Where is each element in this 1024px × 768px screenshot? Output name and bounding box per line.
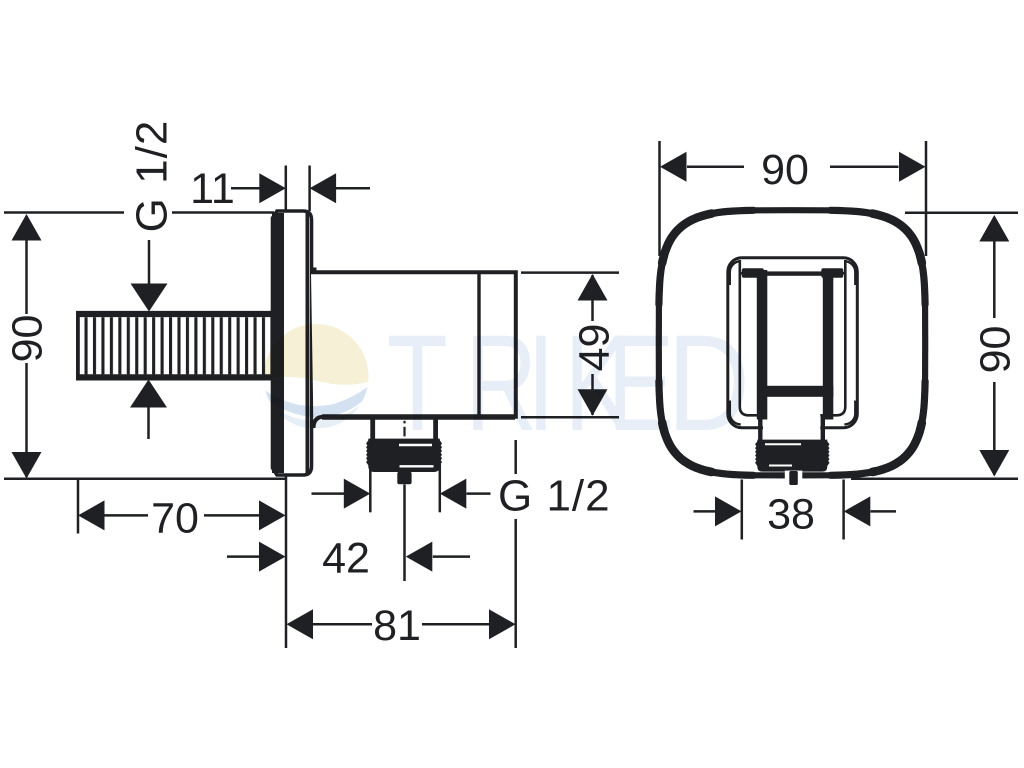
threaded pipe hatch [83, 317, 273, 374]
outlet thread block front [755, 440, 829, 472]
leader line pipe bottom [147, 405, 150, 439]
dim 90-top extension lines (front view) [660, 141, 927, 256]
dim 81 dimension line [313, 623, 489, 626]
arrow 90-left up [12, 214, 42, 241]
body inner vertical line [477, 272, 480, 417]
holder crossbar [757, 386, 833, 397]
dim 90-left dimension line [25, 216, 28, 477]
holder outer outline [728, 258, 858, 428]
dim G1/2 outlet extension lines [370, 464, 440, 512]
holder right tab [821, 268, 843, 277]
svg-text:90: 90 [971, 326, 1019, 374]
arrow 70 left [78, 500, 105, 530]
dim 90-top dimension line [687, 166, 899, 169]
centerline outlet [403, 410, 405, 437]
svg-text:11: 11 [190, 165, 235, 213]
holder bottom gap knockout [763, 404, 820, 431]
outlet thread highlights front [765, 444, 801, 465]
arrow 90-right down [979, 450, 1009, 477]
body bottom edge thickening [322, 414, 515, 420]
dim 90-right dimension line [993, 217, 996, 475]
stem knockout [785, 471, 803, 480]
outlet thread block [366, 439, 442, 472]
arrow 70 right [259, 500, 286, 530]
arrow 42 left [259, 542, 286, 572]
squircle corner thickening [831, 381, 926, 475]
dim G1/2 outlet leader lines [312, 492, 491, 495]
arrow 49 up [578, 274, 608, 301]
svg-text:90: 90 [4, 315, 52, 363]
arrow 90-left down [12, 452, 42, 479]
arrow 42 right [406, 542, 433, 572]
dim 70 dimension line [104, 514, 259, 517]
holder left tab [742, 268, 764, 277]
dim 90-left bottom extension line [4, 478, 287, 481]
extension line plate face [285, 477, 288, 649]
dim 49 extension lines [521, 273, 619, 418]
threaded pipe outline [78, 314, 275, 378]
dim 42 center extension line [403, 485, 406, 582]
dim 11 dimension line [231, 187, 370, 190]
arrow 38 right [844, 496, 871, 526]
escutcheon squircle [659, 210, 925, 475]
outlet neck lines front [760, 414, 823, 441]
dim 70 extension line left [77, 480, 80, 534]
svg-text:81: 81 [373, 602, 421, 650]
arrow 38 left [715, 496, 742, 526]
dim 81 extension line right [514, 440, 517, 648]
dim 90-right bottom extension line [851, 478, 1018, 481]
svg-text:D: D [667, 305, 750, 459]
arrow 81 right [489, 609, 516, 639]
dim 90-left top extension line [4, 211, 274, 214]
arrow 90-top left [660, 152, 687, 182]
leader line G 1/2 top [148, 240, 151, 286]
svg-text:42: 42 [322, 535, 370, 583]
arrow pipe bottom leader up [130, 380, 167, 408]
dim 49 dimension line [591, 275, 594, 415]
svg-text:90: 90 [761, 146, 809, 194]
svg-text:G 1/2: G 1/2 [498, 472, 611, 521]
arrows [12, 152, 1010, 640]
holder left bar [757, 270, 768, 420]
arrow G1/2 top leader down [131, 284, 168, 312]
arrow 49 down [578, 389, 608, 416]
holder corner arcs [730, 261, 856, 424]
arrow 81 left [287, 609, 314, 639]
dim 42 dimension line [227, 555, 470, 558]
watermark logo circle [258, 322, 374, 428]
svg-text:TRIKE: TRIKE [387, 307, 674, 460]
svg-text:70: 70 [151, 495, 199, 543]
wall plate inner right line [305, 213, 309, 473]
holder right bar [823, 270, 834, 420]
body top step [311, 268, 317, 274]
dim 90-right top extension line [905, 212, 1018, 215]
outlet stem front [789, 471, 798, 485]
outlet stem [397, 472, 411, 485]
svg-text:G 1/2: G 1/2 [128, 120, 177, 233]
wall plate front face thick bar [272, 213, 284, 473]
dim 11 extension lines [286, 166, 310, 212]
body outline [311, 272, 516, 428]
arrow G1/2 outlet right [440, 479, 467, 509]
outlet neck lines [373, 418, 436, 439]
dim 38 dimension line [694, 510, 897, 513]
svg-text:38: 38 [767, 491, 815, 539]
outlet thread highlights [399, 445, 434, 466]
wall plate [273, 211, 312, 475]
holder inner top edge [741, 272, 845, 275]
arrow 90-right up [979, 215, 1009, 242]
arrow 11 right [310, 173, 337, 203]
holder slot top bar [766, 271, 823, 275]
arrow G1/2 outlet left [344, 479, 371, 509]
holder inner outline [740, 260, 846, 415]
arrow 90-top right [899, 152, 926, 182]
arrow 11 left [259, 173, 286, 203]
dim 38 extension lines [742, 480, 844, 540]
